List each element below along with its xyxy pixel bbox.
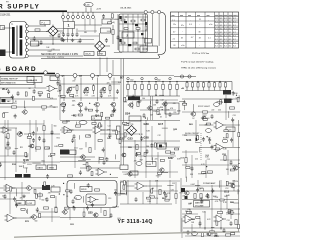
resistor <box>111 14 113 18</box>
svg-text:▬▬: ▬▬ <box>207 14 211 16</box>
capacitor <box>7 89 10 94</box>
fusing resistor at x=142 <box>141 84 143 89</box>
wire <box>182 134 198 136</box>
wire <box>59 90 61 94</box>
resistor <box>38 92 42 94</box>
capacitor <box>230 221 233 226</box>
svg-text:0.01: 0.01 <box>124 174 127 176</box>
wire <box>199 147 214 149</box>
wire <box>238 95 240 99</box>
resistor <box>203 119 207 121</box>
wire <box>60 129 93 131</box>
resistor <box>123 181 125 185</box>
wire <box>156 175 161 177</box>
wire <box>64 105 66 109</box>
pot oval <box>192 232 198 236</box>
connector circle <box>180 75 183 78</box>
capacitor <box>108 133 111 138</box>
svg-text:8.2: 8.2 <box>215 46 217 48</box>
wire <box>0 127 17 129</box>
resistor <box>194 194 196 199</box>
op-amp IC8a <box>183 215 196 223</box>
dark component <box>128 44 131 46</box>
resistor <box>185 158 187 163</box>
capacitor <box>223 228 226 233</box>
table column line <box>195 12 197 48</box>
ground <box>62 39 66 42</box>
TAP box <box>0 98 13 104</box>
capacitor <box>91 203 94 208</box>
vertical wire <box>29 120 31 160</box>
pot oval <box>75 195 82 199</box>
capacitor <box>32 131 35 136</box>
svg-text:C31: C31 <box>52 49 55 51</box>
capacitor <box>208 138 211 143</box>
resistor <box>183 103 187 105</box>
B+ bus wire <box>126 81 232 83</box>
resistor <box>88 109 92 111</box>
resistor <box>202 172 206 174</box>
wire <box>126 99 178 101</box>
connector pin at x=63 <box>62 16 65 19</box>
wire <box>234 202 239 204</box>
wire <box>226 213 240 215</box>
wire <box>15 148 18 150</box>
wire <box>117 192 125 194</box>
transistor <box>128 103 133 107</box>
wire <box>115 154 117 159</box>
vertical wire <box>165 100 167 118</box>
dark component <box>120 16 122 19</box>
stub wire <box>92 78 94 81</box>
label box BASS <box>36 165 46 170</box>
svg-text:LM-340: LM-340 <box>84 5 90 7</box>
svg-text:R21: R21 <box>223 137 226 139</box>
small resistor <box>143 48 147 50</box>
resistor <box>99 158 103 160</box>
svg-text:220: 220 <box>155 158 158 160</box>
capacitor <box>200 199 203 204</box>
svg-text:C12: C12 <box>172 183 175 185</box>
wire <box>186 177 188 182</box>
wire <box>214 82 216 83</box>
wire <box>113 107 115 110</box>
capacitor <box>102 148 105 153</box>
resistor <box>206 123 210 125</box>
regulator LM340 oval <box>84 2 93 6</box>
connector circle 16 <box>108 74 112 78</box>
regulator lead <box>85 7 87 12</box>
wire <box>148 82 150 85</box>
dark capacitor C25 <box>224 99 232 104</box>
wire <box>226 147 240 149</box>
fusing resistor at x=135 <box>134 84 136 89</box>
vertical wire <box>112 25 114 44</box>
vertical wire <box>69 208 71 220</box>
filter capacitor <box>76 32 79 37</box>
wire <box>72 19 74 22</box>
resistor <box>59 144 63 146</box>
table row line <box>171 27 239 29</box>
resistor <box>238 133 240 137</box>
capacitor <box>113 107 116 112</box>
wire <box>30 39 94 41</box>
wire <box>76 122 78 125</box>
capacitor <box>169 112 172 117</box>
svg-text:220: 220 <box>184 135 187 137</box>
wire <box>127 89 129 96</box>
capacitor <box>36 207 39 212</box>
svg-text:▬▬: ▬▬ <box>197 14 201 16</box>
stage resistor 4 <box>109 86 111 91</box>
bus wire <box>0 98 57 100</box>
resistor <box>226 234 231 236</box>
title underline rule <box>0 10 67 12</box>
capacitor <box>46 197 49 202</box>
stage capacitor 2 <box>83 89 86 94</box>
wire <box>63 107 65 110</box>
block wire <box>119 44 148 46</box>
wire <box>197 87 199 91</box>
junction <box>152 188 153 189</box>
capacitor <box>13 197 16 202</box>
resistor <box>76 125 81 127</box>
wire <box>186 82 188 83</box>
regulator lead <box>90 7 92 12</box>
vertical wire <box>51 208 53 222</box>
svg-text:SLIDE CIRCUIT: SLIDE CIRCUIT <box>185 133 200 135</box>
wire <box>0 155 28 157</box>
svg-text:0.047: 0.047 <box>191 184 195 186</box>
transistor Q51 <box>93 213 98 217</box>
svg-text:C44: C44 <box>142 98 145 100</box>
vertical wire <box>117 14 119 50</box>
resistor <box>237 98 239 102</box>
svg-text:C12: C12 <box>108 125 111 127</box>
svg-text:INFORMATION: INFORMATION <box>1 82 16 85</box>
resistor <box>70 94 74 96</box>
bus wire <box>60 161 120 163</box>
resistor <box>135 48 139 50</box>
block wire <box>119 23 148 25</box>
capacitor <box>32 138 35 143</box>
wire <box>60 156 95 158</box>
resistor <box>99 123 101 127</box>
svg-text:6307: 6307 <box>168 157 174 160</box>
wire <box>146 185 162 187</box>
resistor <box>7 134 9 139</box>
wire <box>27 153 29 157</box>
wire <box>198 173 204 175</box>
svg-text:220: 220 <box>211 110 214 112</box>
fusing resistor at x=187 <box>186 83 188 87</box>
wire <box>148 89 150 96</box>
wire <box>182 111 240 113</box>
transistor <box>233 166 238 170</box>
svg-text:POWER AMP: POWER AMP <box>203 182 216 185</box>
wire <box>203 82 205 83</box>
wire <box>166 142 168 147</box>
transistor <box>201 116 206 120</box>
capacitor <box>187 230 190 235</box>
resistor <box>125 124 129 126</box>
resistor <box>137 102 139 107</box>
capacitor C101 <box>40 40 43 45</box>
vertical wire <box>134 140 136 178</box>
stage capacitor 3 <box>100 89 103 94</box>
svg-text:8.2: 8.2 <box>233 46 235 48</box>
junction <box>125 16 126 17</box>
capacitor <box>102 14 105 19</box>
wire <box>162 127 168 129</box>
resistor <box>48 94 50 98</box>
vertical wire <box>181 218 183 238</box>
stage vertical wire <box>97 78 99 102</box>
wire <box>85 142 87 147</box>
op-amp IC5a <box>214 121 227 129</box>
inter-section wire <box>112 60 114 75</box>
resistor <box>136 153 140 155</box>
svg-text:o.5v: o.5v <box>181 45 184 47</box>
junction <box>142 37 143 38</box>
transistor Q6c <box>101 87 106 91</box>
transformer terminal at y=31.5 <box>25 30 28 33</box>
resistor <box>235 220 237 225</box>
stage vertical wire <box>80 78 82 102</box>
svg-text:0.047: 0.047 <box>48 51 52 53</box>
wire <box>182 213 198 215</box>
bus junction <box>155 81 156 82</box>
capacitor <box>165 193 168 198</box>
vertical wire <box>175 182 177 204</box>
stage resistor 2 <box>76 86 78 91</box>
svg-text:2.1: 2.1 <box>172 20 174 22</box>
resistor <box>89 148 91 153</box>
secondary wire <box>28 55 83 57</box>
small terminal <box>155 77 157 79</box>
svg-text:0.7: 0.7 <box>191 37 193 39</box>
dark label block <box>15 174 22 178</box>
wire <box>202 114 206 116</box>
connector pin at x=78 <box>77 16 80 19</box>
vertical wire <box>185 150 187 178</box>
resistor <box>51 196 55 198</box>
preamp transistor stage 2 <box>77 102 83 107</box>
capacitor <box>46 174 49 179</box>
capacitor <box>191 166 194 171</box>
pin stub wire <box>67 12 69 15</box>
transistor Q41 <box>31 215 37 220</box>
bus junction <box>148 81 149 82</box>
svg-text:0.01: 0.01 <box>74 148 77 150</box>
transformer terminal at y=56 <box>25 55 28 58</box>
resistor <box>78 114 82 116</box>
capacitor <box>230 138 233 143</box>
wire <box>76 29 78 33</box>
resistor <box>224 130 228 132</box>
block wire <box>132 14 134 52</box>
connector pin at x=93 <box>92 16 95 19</box>
table column line <box>204 12 206 48</box>
label box below S24 <box>129 116 141 121</box>
vertical wire <box>232 120 234 147</box>
wire <box>217 101 223 103</box>
resistor <box>226 181 228 185</box>
svg-text:G28: G28 <box>144 136 150 140</box>
svg-text:0.01: 0.01 <box>118 195 121 197</box>
capacitor <box>56 81 59 86</box>
capacitor <box>143 113 146 118</box>
vertical wire <box>226 195 228 209</box>
wire <box>201 117 209 119</box>
wire <box>36 127 38 131</box>
dark component <box>124 21 127 23</box>
capacitor <box>7 141 10 146</box>
wire <box>203 188 205 191</box>
label box <box>120 165 128 170</box>
svg-text:o.5v: o.5v <box>209 24 212 26</box>
svg-text:TREB: TREB <box>49 167 55 169</box>
junction <box>59 193 60 194</box>
vertical wire <box>225 95 227 120</box>
resistor <box>186 167 190 169</box>
svg-text:R21: R21 <box>42 161 45 163</box>
secondary wire <box>28 31 48 33</box>
resistor <box>201 233 203 237</box>
svg-text:R21: R21 <box>20 147 23 149</box>
IC label box <box>27 77 42 83</box>
resistor <box>45 147 50 149</box>
resistor <box>123 185 125 189</box>
capacitor <box>105 38 108 43</box>
bus wire <box>0 177 118 179</box>
wire <box>174 76 196 78</box>
transistor <box>127 172 132 176</box>
resistor <box>112 30 114 35</box>
vertical wire <box>104 120 106 160</box>
small resistor <box>141 19 145 21</box>
fusing resistor at x=128 <box>127 84 129 89</box>
vertical wire <box>169 180 171 200</box>
capacitor <box>85 106 88 111</box>
capacitor <box>13 150 16 155</box>
pin stub wire <box>77 12 79 15</box>
stage capacitor 4 <box>116 89 119 94</box>
pin stub wire <box>82 12 84 15</box>
small resistor <box>121 42 125 44</box>
wire <box>0 187 26 189</box>
fusing resistor at x=198 <box>197 83 199 87</box>
resistor <box>160 159 164 161</box>
long vertical wire <box>123 59 125 166</box>
bus junction <box>127 81 128 82</box>
wire <box>67 37 69 42</box>
capacitor <box>146 149 149 154</box>
resistor <box>147 197 151 199</box>
power supply section border <box>41 12 166 58</box>
capacitor <box>73 206 76 211</box>
wire <box>203 87 205 91</box>
table column line <box>214 12 216 48</box>
transistor Q60 <box>184 191 189 195</box>
transistor Q20 <box>80 155 86 159</box>
label box <box>130 171 138 175</box>
dark label block <box>24 174 31 178</box>
resistor <box>210 231 215 233</box>
op-amp power IC <box>88 196 99 203</box>
capacitor <box>86 206 89 211</box>
stage resistor 3 <box>93 86 95 91</box>
resistor <box>44 207 49 209</box>
resistor <box>87 167 89 171</box>
wire <box>26 168 28 173</box>
resistor <box>92 122 96 124</box>
connector pin at x=73 <box>72 16 75 19</box>
capacitor <box>110 213 113 218</box>
resistor <box>216 221 218 225</box>
wire <box>27 209 29 214</box>
vertical wire <box>109 120 111 135</box>
pot wiper arrow <box>196 138 200 142</box>
fusing resistor at x=225.5 <box>224 83 226 87</box>
wire <box>109 84 111 86</box>
pin stub wire <box>72 12 74 15</box>
fuse F1 box <box>40 20 50 24</box>
wire <box>228 111 230 118</box>
wire <box>218 181 220 188</box>
connector circle <box>44 71 48 75</box>
capacitor <box>231 118 234 123</box>
wire <box>179 100 185 102</box>
bridge D1 bottom lead <box>52 36 54 44</box>
wire <box>169 89 171 96</box>
junction <box>130 44 131 45</box>
transistor Q12 <box>22 110 28 114</box>
stage bus wire <box>60 97 118 99</box>
block wire <box>119 30 148 32</box>
ground <box>22 195 26 198</box>
op-amp IC3 <box>96 168 108 175</box>
transistor <box>147 106 152 110</box>
wire <box>185 235 240 237</box>
capacitor <box>138 100 141 105</box>
svg-text:SIGNAL PATH OF: SIGNAL PATH OF <box>1 78 19 81</box>
wire <box>155 82 157 85</box>
wire <box>36 211 58 213</box>
wire <box>0 198 14 200</box>
block wire <box>122 14 124 52</box>
wire <box>214 87 216 91</box>
capacitor <box>100 93 103 98</box>
svg-text:TAP: TAP <box>7 100 12 103</box>
resistor <box>220 199 224 201</box>
resistor <box>108 22 112 24</box>
svg-text:Q18: Q18 <box>23 158 29 162</box>
secondary wire <box>28 37 63 39</box>
junction <box>162 109 163 110</box>
dark component block <box>181 188 185 192</box>
wire <box>26 210 28 213</box>
resistor <box>34 189 36 193</box>
table fine row line <box>215 32 239 34</box>
block wire <box>119 37 148 39</box>
wire <box>34 83 36 89</box>
wire <box>132 101 134 108</box>
wire <box>102 129 117 131</box>
wire <box>183 102 185 110</box>
vertical wire <box>55 196 57 207</box>
transistor <box>230 184 235 188</box>
